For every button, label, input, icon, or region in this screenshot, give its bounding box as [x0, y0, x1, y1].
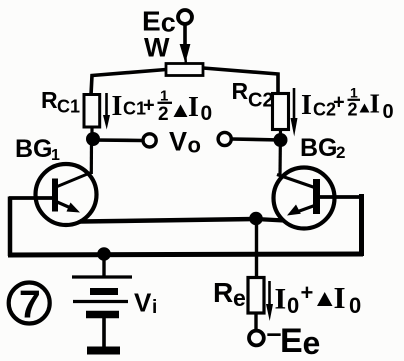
- svg-text:V: V: [134, 288, 152, 318]
- svg-text:I: I: [275, 283, 287, 316]
- wire left frame: [8, 197, 13, 257]
- svg-text:1: 1: [350, 85, 358, 101]
- wire node to Vo left terminal: [92, 138, 142, 142]
- wire pot left to RC1: [91, 70, 166, 96]
- svg-text:2: 2: [336, 143, 345, 162]
- svg-text:BG: BG: [300, 134, 338, 162]
- wire BG2 base to right frame: [320, 195, 363, 199]
- wire right frame: [359, 194, 364, 256]
- svg-text:1: 1: [51, 147, 60, 164]
- svg-text:I: I: [112, 91, 123, 122]
- svg-text:+: +: [333, 92, 345, 114]
- svg-text:E: E: [280, 322, 303, 360]
- svg-text:R: R: [41, 87, 58, 113]
- wire bottom bus: [8, 254, 363, 255]
- wire Ec to wiper arrow: [183, 24, 187, 50]
- svg-text:7: 7: [19, 284, 41, 327]
- wire node to BG2 collector: [278, 129, 282, 176]
- svg-text:2: 2: [348, 100, 358, 120]
- transistor BG2: [274, 168, 335, 229]
- terminal Vo left: [143, 134, 156, 147]
- svg-text:R: R: [213, 277, 233, 308]
- wire Vo right terminal to node: [232, 139, 282, 140]
- svg-text:e: e: [233, 285, 246, 311]
- svg-text:0: 0: [383, 101, 394, 123]
- node below RC2: [274, 133, 288, 147]
- current arrow I0: [268, 281, 271, 308]
- svg-text:I: I: [188, 92, 199, 123]
- svg-text:i: i: [152, 297, 157, 318]
- terminal -Ee: [249, 331, 264, 346]
- node below RC1: [86, 132, 100, 146]
- svg-text:BG: BG: [15, 135, 53, 163]
- wire emitter node to Re: [255, 220, 258, 279]
- svg-text:e: e: [303, 325, 321, 361]
- svg-text:I: I: [301, 90, 312, 121]
- terminal Ec: [178, 10, 192, 24]
- svg-text:0: 0: [349, 293, 361, 318]
- wire node to BG1 collector: [90, 140, 93, 175]
- svg-text:R: R: [232, 78, 249, 104]
- figure number 7: [9, 283, 50, 327]
- transistor BG1: [36, 164, 97, 225]
- wire BG1 base to left frame: [9, 196, 54, 200]
- resistor RC2: [273, 94, 289, 130]
- wire RC1 to node: [90, 127, 93, 139]
- current arrow IC2: [293, 88, 296, 122]
- wire emitter bus: [80, 219, 256, 222]
- node emitter junction: [249, 212, 263, 226]
- terminal Vo right: [218, 132, 231, 145]
- wire Re to -Ee terminal: [254, 313, 257, 331]
- svg-text:0: 0: [287, 293, 299, 318]
- svg-text:2: 2: [158, 104, 169, 125]
- wire pot right to RC2: [203, 68, 278, 94]
- svg-text:+: +: [143, 95, 155, 117]
- svg-text:V: V: [169, 127, 187, 157]
- svg-text:W: W: [144, 33, 170, 63]
- resistor Re: [248, 278, 264, 314]
- svg-text:I: I: [334, 280, 346, 315]
- svg-text:C1: C1: [57, 97, 80, 117]
- resistor RC1: [84, 95, 100, 128]
- wire junction to battery: [102, 254, 105, 276]
- svg-text:0: 0: [201, 102, 213, 125]
- battery Vi: [72, 277, 132, 351]
- current arrow IC1: [105, 93, 108, 119]
- potentiometer W body: [166, 64, 203, 76]
- svg-text:C2: C2: [248, 90, 274, 112]
- svg-text:+: +: [301, 280, 314, 305]
- svg-text:o: o: [188, 133, 201, 158]
- svg-text:I: I: [370, 89, 381, 119]
- node battery junction: [97, 247, 111, 261]
